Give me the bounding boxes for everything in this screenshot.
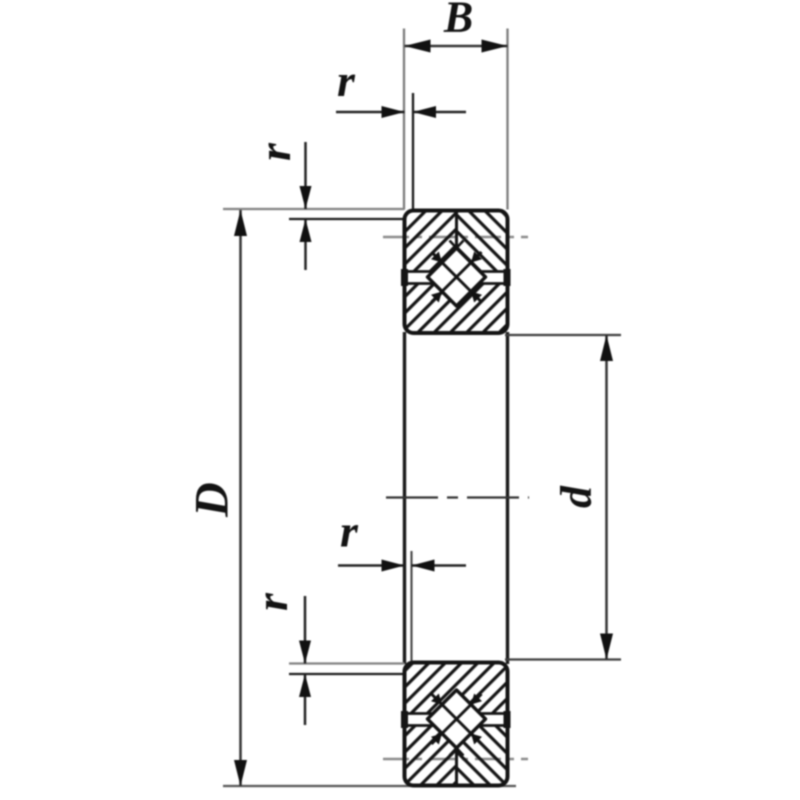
upper ring section outer ring split line [455,211,458,249]
d arrow bottom [600,634,613,660]
upper ring section split line flare [450,241,457,249]
lower ring section roller axis line 2 [432,694,482,744]
d arrow top [600,335,613,361]
bore silhouette line right (between ring sections) [506,332,509,664]
svg-text:r: r [246,592,297,611]
upper ring section roller slot notch left face [401,269,408,286]
d extension line bottom [505,658,621,660]
r dimension bottom vertical upper arrow [304,596,307,664]
svg-text:B: B [443,0,473,42]
svg-text:r: r [337,55,356,106]
lower ring section roller slot notch right face [504,711,511,728]
upper ring section roller slot notch right face [504,269,511,286]
dimension line B [405,45,508,48]
lower ring section roller axis arrow upper-left [431,694,442,705]
lower ring section hatch outer-ring left half [405,726,457,786]
bearing axis center line (dash-dot) [386,496,529,498]
B arrow left [405,40,431,53]
upper ring section hatch inner-ring part [405,284,508,334]
upper ring section roller axis arrow upper-left [431,252,442,263]
lower ring section raceway groove upper line [405,712,508,715]
chamfer edge line top-left horizontal [289,218,405,220]
r dimension top vertical lower arrow [304,219,307,270]
upper ring section roller pitch dash-dot line [383,236,528,238]
lower ring section hatch inner-ring part [405,663,508,714]
upper ring section hatch outer-ring right half [457,211,508,272]
chamfer edge line bottom vertical [410,551,412,664]
upper ring section raceway groove upper line [405,270,508,273]
bore plane line bottom-left (gray) [289,662,405,664]
lower ring section roller axis arrow upper-right [471,694,482,705]
lower ring section split line flare [450,748,457,756]
upper ring section roller axis arrow upper-right [471,252,482,263]
r dimension bottom horizontal left arrow [338,564,405,567]
svg-text:D: D [185,482,238,518]
lower ring section roller slot notch left face [401,711,408,728]
upper ring section roller axis line 1 [432,252,482,302]
svg-text:r: r [340,506,359,557]
svg-text:d: d [552,485,601,508]
upper ring section roller axis arrow lower-left [431,292,442,303]
chamfer edge line top vertical [412,93,414,210]
upper ring section hatch outer-ring left half [405,211,457,272]
upper ring section roller axis line 2 [432,252,482,302]
r dimension top vertical upper arrow [304,142,307,209]
D arrow bottom [234,760,247,786]
dimension line d [605,335,608,660]
lower ring section roller axis arrow lower-right [471,734,482,745]
lower ring section raceway groove lower line [405,724,508,727]
d extension line top [505,334,621,336]
upper ring section ring section outline [405,211,508,334]
B extension line left [403,29,405,210]
lower ring section outer ring split line [455,748,458,786]
lower ring section ring section outline [405,663,508,786]
upper ring section crossed roller element (rotated square) [428,248,486,306]
outer surface plane line top-left (gray) [223,208,405,210]
D extension line bottom (outer surface) [223,785,516,787]
r dimension bottom horizontal right arrow [412,564,467,567]
lower ring section crossed roller element (rotated square) [428,690,486,748]
lower ring section roller axis arrow lower-left [431,734,442,745]
upper ring section raceway groove lower line [405,282,508,285]
r dimension bottom vertical lower arrow [304,674,307,725]
lower ring section roller axis line 1 [432,694,482,744]
D arrow top [234,210,247,236]
dimension line D [239,210,242,786]
upper ring section roller axis arrow lower-right [471,292,482,303]
bore silhouette line left (between ring sections) [403,332,406,664]
B arrow right [482,40,508,53]
lower ring section roller pitch dash-dot line [383,758,528,760]
lower ring section hatch outer-ring right half [457,726,508,786]
r dimension top horizontal left arrow [336,111,405,114]
svg-text:r: r [249,142,300,161]
chamfer edge line bottom-left horizontal [289,673,405,675]
r dimension top horizontal right arrow [413,111,466,114]
B extension line right [506,29,508,210]
